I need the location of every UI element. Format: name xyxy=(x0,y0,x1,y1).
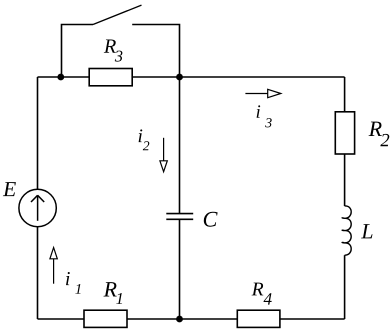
label R2 subscript 2 xyxy=(380,134,389,146)
label i2 xyxy=(139,129,143,142)
label R1 subscript 1 xyxy=(116,293,122,304)
node B junction dot middle top xyxy=(176,74,183,81)
current arrow i2 xyxy=(160,138,167,172)
label i3 subscript 3 xyxy=(265,118,272,127)
node D junction dot middle bottom xyxy=(176,316,183,323)
label C xyxy=(204,212,218,227)
label E xyxy=(3,182,16,196)
node A junction dot left xyxy=(57,74,64,81)
wire right vertical top xyxy=(344,77,346,112)
label L xyxy=(361,224,372,238)
wire bottom between R1 and R4 xyxy=(127,318,237,320)
label R2 xyxy=(369,122,382,136)
wire middle vertical lower xyxy=(179,219,181,319)
wire switch right contact xyxy=(132,25,179,78)
label R3 subscript 3 xyxy=(115,51,123,62)
label i2 subscript 2 xyxy=(143,141,150,150)
capacitor C bottom plate xyxy=(166,218,193,220)
resistor R3 xyxy=(89,69,132,86)
wire top horizontal right of R3 xyxy=(132,76,344,78)
label R1 xyxy=(104,282,117,296)
wire bottom right of R4 xyxy=(280,318,345,320)
wire right vertical between R2 and L xyxy=(344,154,346,206)
current arrow i1 xyxy=(50,248,57,284)
resistor R1 xyxy=(84,310,127,327)
wire bottom left of R1 xyxy=(38,318,85,320)
wire top horizontal left of R3 xyxy=(38,76,90,78)
wire left vertical lower xyxy=(37,227,39,319)
wire switch left riser xyxy=(62,25,94,78)
label i1 subscript 1 xyxy=(75,284,80,294)
resistor R4 xyxy=(237,310,280,327)
wire right vertical bottom xyxy=(344,255,346,319)
wire middle vertical upper xyxy=(179,77,181,213)
label R4 subscript 4 xyxy=(264,293,272,304)
current arrow i3 xyxy=(245,89,280,97)
label i3 xyxy=(257,105,261,117)
switch S1 blade xyxy=(93,5,142,24)
label i1 xyxy=(66,272,70,285)
label R4 xyxy=(252,283,264,296)
label R3 xyxy=(104,40,116,53)
wire left vertical upper xyxy=(37,77,39,189)
inductor L xyxy=(342,206,351,255)
capacitor C top plate xyxy=(166,213,193,215)
source E circle xyxy=(19,189,56,226)
resistor R2 xyxy=(335,112,354,154)
source E arrow xyxy=(31,195,44,221)
